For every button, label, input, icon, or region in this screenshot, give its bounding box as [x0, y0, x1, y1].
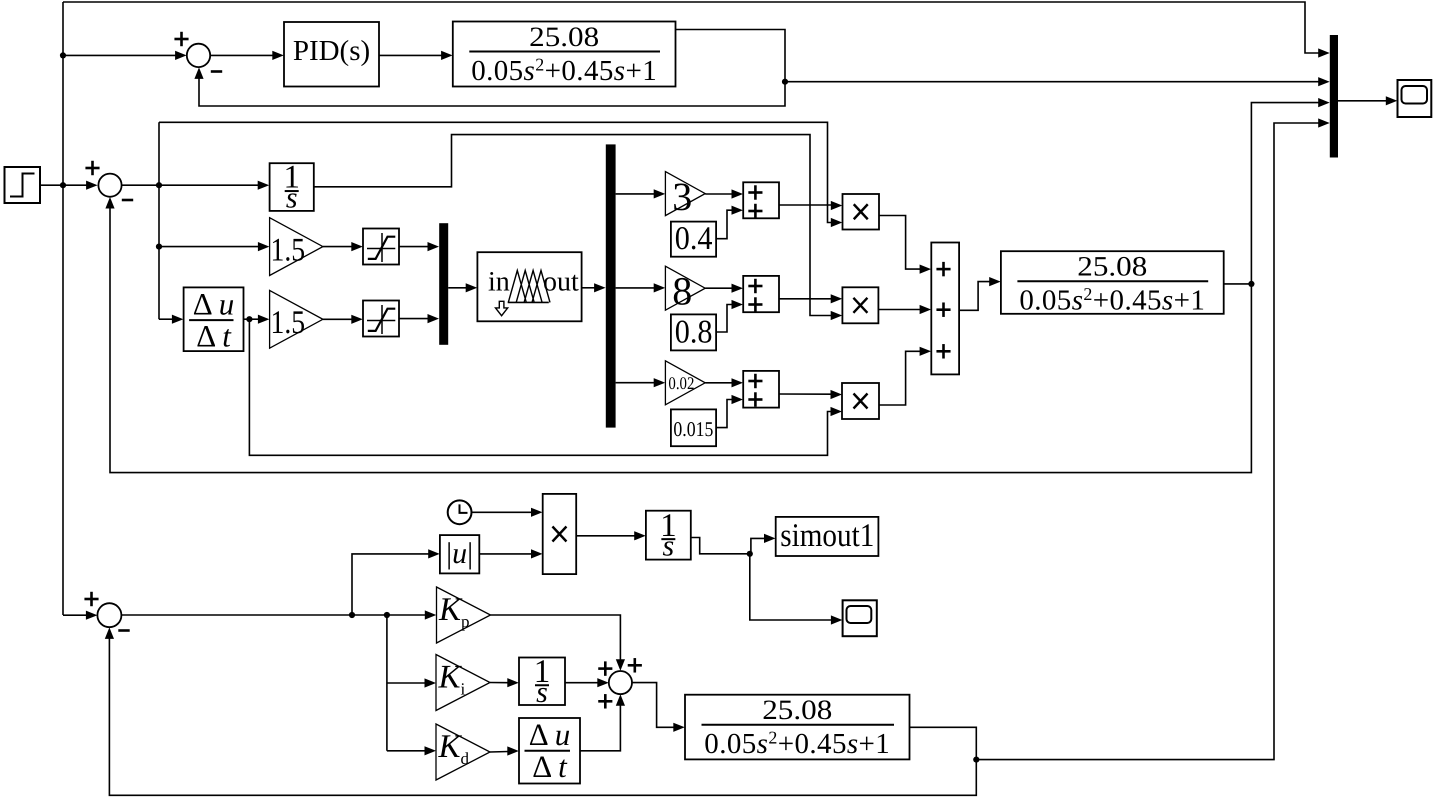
gain 0.02 triangle	[665, 361, 705, 405]
svg-text:0.4: 0.4	[675, 221, 713, 257]
integrator I3 1/s	[519, 654, 565, 709]
integrator I2 1/s	[646, 508, 691, 563]
wire D2 to sum S5 bottom	[580, 694, 625, 751]
wire G3 output to node	[910, 727, 980, 762]
svg-text:3: 3	[672, 174, 692, 219]
gain Kd triangle	[436, 724, 490, 780]
wire SAT2 to mux M1	[399, 314, 439, 323]
wire vertical branch x=159	[156, 122, 162, 319]
svg-text:25.08: 25.08	[762, 695, 832, 726]
sum block S3 three inputs	[931, 243, 959, 375]
svg-text:in: in	[488, 267, 510, 298]
sum junction S5	[598, 658, 642, 708]
wire demux out2 to gain 8	[616, 283, 666, 292]
wire S3 to plant G2	[959, 277, 1001, 310]
gain 8 triangle	[665, 266, 705, 313]
PID controller block	[284, 22, 379, 87]
wire sum A to product P1	[779, 201, 842, 210]
wire 1.5b to saturation SAT2	[323, 315, 363, 324]
wire step output / source node	[40, 181, 98, 190]
wire trunk into S4 plus	[63, 611, 97, 620]
svg-text:s: s	[663, 530, 675, 563]
wire demux out1 to gain 3	[616, 189, 666, 198]
product P4	[543, 494, 577, 574]
wire S5 to plant G3	[632, 683, 685, 732]
product P1	[843, 194, 880, 230]
gain 1.5b triangle	[270, 290, 323, 348]
derivative block D2 du/dt	[519, 717, 580, 784]
svg-text:8: 8	[672, 269, 692, 314]
wire error signal loop to product P1	[159, 122, 842, 227]
wire node to simout1	[751, 534, 776, 554]
wire PID to plant G1	[379, 51, 453, 60]
derivative block D1 du/dt	[184, 286, 244, 353]
svg-text:|u|: |u|	[446, 537, 473, 570]
sum junction S2	[85, 161, 133, 200]
svg-text:0.015: 0.015	[673, 417, 713, 441]
wire branch to derivative D1	[159, 315, 183, 324]
wire demux out3 to gain 0.02	[616, 378, 666, 387]
wire SAT1 to mux M1	[399, 242, 439, 251]
wire S1 to PID	[210, 51, 284, 60]
wire 0.4 to sum A	[716, 206, 743, 239]
abs block |u|	[440, 535, 479, 573]
wire 0.015 to sum C	[716, 395, 743, 428]
wire top feedthrough to mux	[63, 2, 1330, 58]
svg-text:1.5: 1.5	[271, 305, 306, 341]
wire I1 loop to product P2	[314, 135, 842, 321]
scope1 block	[1398, 80, 1432, 117]
mux M3 bar	[1330, 35, 1338, 158]
wire Kd to derivative D2	[490, 746, 519, 755]
wire branch up to abs block	[352, 549, 440, 615]
wire gain8 to sum B	[705, 284, 743, 293]
wire G1 output to node	[676, 30, 789, 85]
sum block B	[743, 276, 779, 312]
wire node to scope2	[750, 554, 843, 625]
svg-text:s: s	[286, 182, 298, 215]
sum block A	[743, 182, 779, 218]
integrator I1 1/s	[270, 160, 314, 215]
wire main vertical trunk x=63	[62, 2, 64, 615]
sum junction S4	[84, 592, 129, 631]
gain Kp triangle	[437, 587, 491, 643]
scope2 block	[843, 600, 877, 636]
wire S2 to integrator I1	[122, 181, 270, 190]
wire Ki to integrator I3	[490, 678, 519, 687]
product P2	[842, 287, 878, 323]
wire branch to gain 1.5a	[159, 242, 269, 251]
product P3	[842, 383, 879, 419]
demux bar	[606, 144, 616, 427]
wire delta-e loop to product P3	[249, 319, 842, 455]
wire sum C to product P3	[779, 390, 842, 399]
svg-text:0.05s2+0.45s+1: 0.05s2+0.45s+1	[471, 54, 657, 87]
wire I2 to node	[691, 538, 753, 557]
wire I3 to sum S5	[565, 678, 609, 687]
wire G3 node to mux input 4	[976, 118, 1329, 759]
wire P3 to sum S3 input3	[879, 347, 931, 405]
svg-text:s: s	[536, 676, 548, 709]
svg-text:PID(s): PID(s)	[293, 35, 370, 67]
wire clock to product P4	[472, 508, 543, 517]
sum junction S1	[174, 32, 222, 72]
wire gain3 to sum A	[705, 189, 743, 198]
svg-text:0.02: 0.02	[668, 373, 694, 393]
wire D1 to gain 1.5b and down	[244, 315, 270, 324]
wire 0.8 to sum B	[716, 300, 743, 332]
gain 3 triangle	[665, 172, 705, 219]
saturation SAT2	[363, 301, 399, 337]
wire G2 feedback to S2 minus	[105, 197, 1251, 473]
wire P4 to integrator I2	[576, 531, 646, 540]
svg-text:Δ u: Δ u	[193, 286, 234, 321]
transfer function G1 25.08/(0.05s2+0.45s+1)	[453, 22, 676, 87]
svg-text:0.8: 0.8	[675, 315, 713, 351]
svg-text:1.5: 1.5	[271, 232, 306, 268]
fuzzy logic controller block	[477, 252, 581, 321]
constant 0.8	[671, 314, 716, 350]
clock block	[448, 500, 472, 524]
wire G2 output to node	[1224, 281, 1255, 287]
svg-text:0.05s2+0.45s+1: 0.05s2+0.45s+1	[704, 728, 890, 761]
wire Kp to sum S5 top	[491, 615, 626, 671]
gain 1.5a triangle	[270, 218, 323, 276]
wire abs to product P4	[479, 549, 542, 558]
constant 0.4	[671, 221, 716, 257]
svg-text:0.05s2+0.45s+1: 0.05s2+0.45s+1	[1019, 284, 1205, 317]
step source block	[5, 167, 41, 203]
svg-text:out: out	[543, 267, 579, 298]
wire M1 to fuzzy controller	[448, 283, 477, 292]
wire G2 node to mux input 3	[1251, 98, 1329, 284]
wire feedback G1 to S1 minus	[194, 67, 785, 106]
wire G3 feedback to S4 minus	[105, 627, 977, 795]
wire sum B to product P2	[779, 294, 842, 303]
wire 1.5a to saturation SAT1	[323, 242, 363, 251]
wire mux to scope1	[1338, 96, 1397, 105]
wire into S1 plus	[60, 51, 187, 60]
saturation SAT1	[363, 229, 399, 265]
wire S4 output to Kp	[121, 610, 436, 619]
simout1 block	[776, 517, 879, 556]
svg-text:Δ t: Δ t	[196, 318, 232, 353]
gain Ki triangle	[436, 655, 490, 711]
transfer function G3 25.08/(0.05s2+0.45s+1)	[685, 695, 910, 760]
wire fuzzy to demux	[582, 283, 606, 292]
sum block C	[743, 371, 779, 408]
svg-text:Δ u: Δ u	[529, 717, 570, 752]
constant 0.015	[671, 409, 716, 446]
mux M1 bar	[439, 223, 448, 345]
transfer function G2 25.08/(0.05s2+0.45s+1)	[1001, 251, 1224, 316]
svg-text:simout1: simout1	[780, 518, 874, 554]
wire P1 to sum S3 input1	[879, 216, 931, 274]
wire branch down to Ki Kd	[386, 615, 388, 751]
wire node to mux input 2	[785, 77, 1330, 86]
svg-text:25.08: 25.08	[529, 22, 599, 53]
svg-text:25.08: 25.08	[1077, 252, 1147, 283]
wire P2 to sum S3 input2	[878, 305, 931, 314]
svg-text:Δ t: Δ t	[532, 749, 568, 784]
wire branch to Kd	[387, 746, 436, 755]
wire branch to Ki	[387, 678, 436, 687]
wire gain 0.02 to sum C	[705, 378, 743, 387]
